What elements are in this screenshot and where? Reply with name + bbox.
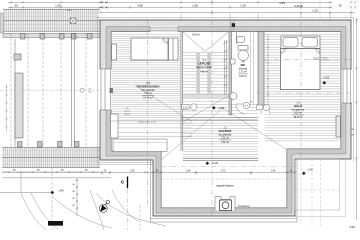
exterior walls insulation layer [100, 20, 351, 216]
stair upper treads [183, 53, 229, 95]
svg-text:4,86 m²: 4,86 m² [200, 70, 208, 73]
svg-text:-0,46: -0,46 [58, 190, 64, 193]
svg-text:1,20: 1,20 [312, 9, 318, 13]
gallery south rail [183, 158, 258, 160]
window in north wall over guest room [150, 26, 178, 32]
bay dashed axis vertical [211, 0, 213, 216]
svg-text:lefolyócsatorna ∅ 110: lefolyócsatorna ∅ 110 [138, 121, 156, 124]
stair label block [196, 59, 212, 73]
WC washbasin [237, 32, 245, 45]
svg-text:5,04 m²: 5,04 m² [192, 34, 200, 37]
bottom dimension numbers [104, 169, 293, 172]
bedroom interior dim chain [267, 34, 269, 108]
svg-text:4,85: 4,85 [137, 4, 143, 8]
level line -0,46 [0, 172, 64, 194]
svg-text:1,34: 1,34 [271, 169, 276, 172]
guest room niche west wall [112, 44, 117, 60]
WC radiator circle [230, 93, 237, 100]
west wall lower niche cupboard [111, 114, 119, 138]
gallery level marker 0,00 [205, 161, 218, 165]
dimension numbers top [14, 1, 342, 13]
svg-text:lam.parketta: lam.parketta [219, 133, 232, 136]
svg-text:+3,02: +3,02 [218, 107, 225, 110]
svg-text:1,20: 1,20 [240, 4, 246, 8]
svg-text:lépcső: lépcső [124, 111, 129, 113]
axis dash-dot across bay [161, 166, 295, 168]
pergola rails top-left [3, 9, 100, 31]
pergola posts bottom [18, 142, 80, 148]
svg-text:18,40 m²: 18,40 m² [293, 116, 302, 119]
terrace south-east outline [295, 159, 340, 210]
post symbol on bottom pergola [70, 154, 76, 160]
right dimension column [350, 18, 357, 220]
svg-text:K1 kémény: K1 kémény [238, 206, 250, 208]
dimension ticks top [10, 1, 352, 13]
pergola rails bottom-left [2, 148, 100, 168]
svg-text:GALÉRIA: GALÉRIA [218, 128, 232, 133]
dimension extension lines top [181, 13, 351, 20]
bedroom west partition wall [258, 32, 264, 106]
stair descent tiny note [124, 108, 130, 116]
terrace outer edge [295, 159, 346, 217]
svg-text:1,71 m²: 1,71 m² [239, 71, 247, 74]
stair landing edge [183, 95, 229, 97]
gallery tag circle B [182, 104, 198, 110]
window east [342, 69, 353, 103]
svg-text:14,70 m²: 14,70 m² [143, 97, 153, 100]
svg-text:+3,02: +3,02 [323, 77, 330, 80]
svg-text:4,85: 4,85 [279, 1, 285, 5]
svg-text:c: c [121, 180, 124, 186]
bedroom floor boards [265, 34, 342, 141]
bedroom label block [292, 102, 305, 120]
planter west [15, 73, 23, 138]
pergola rafters top-left [5, 9, 98, 31]
guest room lower sparse boards [112, 124, 193, 137]
svg-text:lejárata: lejárata [124, 113, 130, 116]
bedroom tag circle left [257, 104, 270, 110]
stair stringers [196, 53, 211, 94]
svg-text:-0,02: -0,02 [307, 169, 313, 172]
gallery level marker +3,02 [212, 106, 225, 110]
svg-text:30: 30 [14, 4, 18, 8]
west axis symbol [80, 88, 92, 93]
tag circle right [243, 102, 249, 108]
stair landing boards [183, 98, 229, 114]
pergola rafters bottom-left [4, 148, 99, 168]
guest room bed [131, 38, 168, 60]
dimension end marks top right [101, 1, 356, 8]
guest room label block [136, 81, 160, 100]
bedroom dashed axis horizontal 2 [256, 92, 352, 94]
yard post double line [15, 33, 75, 147]
bedroom radiator east [336, 116, 341, 137]
window west [100, 69, 114, 110]
guest room lower landing rect [113, 139, 167, 152]
svg-text:-0,48: -0,48 [349, 226, 355, 229]
exterior walls structural gray band [106, 27, 346, 214]
terrace level marker -0,02 [302, 169, 313, 176]
top dimension line row 1 [8, 1, 332, 3]
driveway arcs [21, 193, 58, 230]
bedroom door swing [261, 105, 270, 114]
yard dashed horizontals left [0, 89, 100, 91]
terrace dashed grid [295, 159, 340, 226]
pergola band top-left [3, 9, 100, 31]
bedroom window annotation [312, 57, 331, 60]
pergola end post left edge [0, 13, 4, 33]
svg-text:HÁLÓ: HÁLÓ [294, 103, 303, 108]
svg-text:tölgyfa burkolat: tölgyfa burkolat [196, 66, 212, 69]
WC door swing [236, 104, 246, 114]
bay dashed horizontal [161, 178, 295, 180]
svg-text:2,10: 2,10 [183, 107, 188, 109]
guest room wardrobe right of bed [169, 38, 179, 60]
dimension line below bottom pergola [2, 171, 100, 173]
svg-text:18x: 18x [250, 102, 253, 104]
svg-text:4,6: 4,6 [126, 108, 129, 110]
stairwell west wall double line [181, 32, 183, 152]
svg-text:40/40: 40/40 [67, 10, 72, 12]
gallery label block [218, 127, 232, 145]
svg-text:1,35: 1,35 [130, 169, 135, 172]
chimney K1 [215, 197, 235, 211]
svg-text:1,20: 1,20 [55, 4, 61, 8]
post symbol on top pergola [70, 18, 76, 24]
slope pen symbol [99, 200, 109, 212]
bottom dimension ticks [101, 171, 296, 174]
bedroom level marker +3,02 [322, 77, 329, 85]
guest dashed axis vertical [147, 20, 149, 208]
bedroom dashed axis horizontal [264, 59, 352, 61]
landing boards by WC door [229, 105, 258, 114]
pergola posts top [21, 34, 93, 40]
stair riser dimension column [224, 40, 228, 95]
svg-text:3,20: 3,20 [294, 4, 300, 8]
svg-text:30: 30 [338, 4, 342, 8]
svg-text:2,72: 2,72 [221, 169, 226, 172]
WC partition wall east of stair [229, 32, 232, 116]
WC duct shaft [251, 32, 254, 106]
guest room floor boards [112, 34, 182, 120]
driveway arcs outer [52, 190, 166, 230]
pergola band bottom-left [2, 148, 100, 168]
svg-text:LÉPCSŐ: LÉPCSŐ [198, 61, 211, 66]
guest room south boundary line [111, 120, 181, 122]
eaves double lines below bottom wall [150, 159, 297, 222]
svg-text:7,21 m²: 7,21 m² [221, 137, 229, 140]
section mark c bottom [121, 177, 128, 231]
svg-text:+0,00: +0,00 [212, 162, 219, 165]
post footing square west [14, 54, 21, 60]
left vertical dimension chain [72, 178, 78, 216]
svg-text:3,24 m²: 3,24 m² [239, 75, 247, 78]
void diagonals over gallery [135, 85, 287, 160]
WC small fixture [231, 59, 236, 64]
section mark top [231, 20, 236, 32]
svg-text:1,34: 1,34 [186, 169, 191, 172]
top dimension line row 3 [100, 12, 355, 14]
roof overhang line top/right [98, 18, 354, 165]
bedroom bed [281, 36, 321, 90]
gallery north railing [181, 117, 258, 120]
ticks below bottom pergola [8, 171, 94, 173]
pergola edge beam top-left [3, 34, 100, 38]
WC label block [238, 61, 248, 79]
svg-text:nappali légtere: nappali légtere [216, 184, 234, 188]
top dimension line row 2 [8, 6, 332, 8]
gallery floor boards [183, 121, 258, 157]
tiny numbers below bottom pergola [13, 169, 88, 172]
legend black bar [48, 221, 63, 226]
WC toilet [238, 46, 248, 61]
bottom dimension line [2, 172, 295, 178]
svg-text:7,61 m²: 7,61 m² [221, 141, 229, 144]
svg-text:lam.parketta: lam.parketta [292, 108, 305, 111]
svg-text:1,50: 1,50 [192, 4, 198, 8]
yard dashed grid verticals left [11, 33, 140, 230]
void diagonals over stair [183, 32, 229, 52]
svg-text:kerámia: kerámia [239, 67, 248, 70]
west small dim chain [6, 84, 8, 132]
bedroom dashed axis vertical [300, 2, 302, 159]
